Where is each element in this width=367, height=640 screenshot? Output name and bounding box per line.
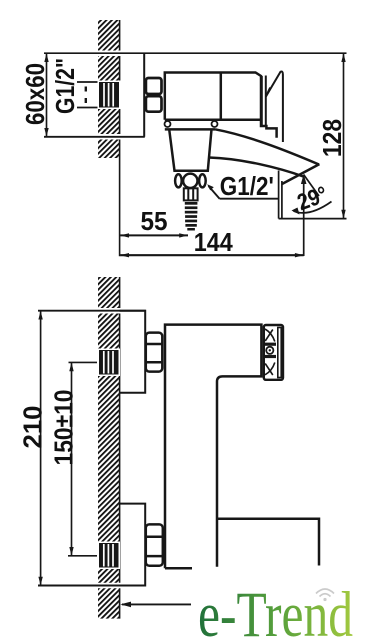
wall hatching (bottom figure) — [98, 277, 120, 619]
angle slant ray — [304, 175, 319, 197]
hose ball joint — [175, 174, 206, 188]
angle reference vertical ray — [303, 175, 305, 256]
dimension 150+-10 — [71, 362, 73, 555]
wall face line (bottom figure) — [119, 277, 121, 619]
escutcheon plate front edge — [143, 53, 145, 137]
e-Trend logo watermark arcs — [316, 589, 334, 597]
spout upper curve — [215, 129, 319, 164]
spout outline (bottom figure) — [218, 519, 319, 566]
bottom flange (bottom figure) — [120, 504, 146, 586]
bottom union nut (bottom figure) — [146, 524, 163, 565]
flange bottom line / 210 extension — [38, 583, 146, 589]
union nut (top figure) — [146, 78, 162, 112]
hose nut — [184, 188, 198, 200]
dimension 60x60 line — [46, 53, 48, 137]
spout lower curve — [209, 158, 303, 177]
svg-text:60x60: 60x60 — [20, 63, 50, 125]
wall face line (top figure) — [119, 20, 121, 256]
faucet body outline (bottom figure) — [165, 325, 261, 569]
svg-text:G1/2': G1/2' — [220, 171, 274, 201]
dimension 128 vertical line — [343, 53, 345, 218]
top union nut (bottom figure) — [146, 333, 163, 372]
angle arc — [294, 202, 332, 213]
diverter housing under body — [165, 129, 215, 170]
handle lever (top figure) — [262, 72, 283, 142]
spout end face line — [282, 164, 319, 184]
escutcheon plate bottom line — [44, 134, 145, 140]
svg-text:G1/2": G1/2" — [50, 58, 80, 114]
G1/2" thread extent ticks — [77, 82, 98, 108]
dimension 144 — [120, 254, 304, 256]
svg-text:150±10: 150±10 — [49, 390, 79, 466]
top reference line y=53 — [44, 50, 347, 56]
dimension 55 — [120, 234, 188, 236]
svg-text:144: 144 — [194, 227, 233, 257]
wall pipe nipple (top figure) — [98, 81, 121, 110]
spout outlet edge lines — [279, 171, 282, 219]
top wall pipe (bottom figure) — [98, 349, 121, 377]
svg-text:55: 55 — [141, 206, 168, 236]
faucet body (top figure) — [165, 73, 277, 138]
handle cap (bottom figure) — [264, 325, 283, 380]
bottom wall pipe (bottom figure) — [98, 542, 121, 570]
wall hatching (top figure) — [98, 20, 120, 158]
wall mounting surface leader arrow — [122, 603, 191, 605]
hose thread ribs — [185, 202, 198, 231]
body feet — [165, 121, 218, 127]
svg-text:e-Trend: e-Trend — [198, 579, 353, 640]
bottom reference line for 128 — [279, 218, 347, 220]
flange top line / 210 extension — [38, 308, 146, 314]
dimension 210 — [40, 311, 42, 586]
svg-text:128: 128 — [317, 119, 347, 157]
svg-text:210: 210 — [18, 406, 48, 449]
top flange (bottom figure) — [120, 311, 146, 393]
